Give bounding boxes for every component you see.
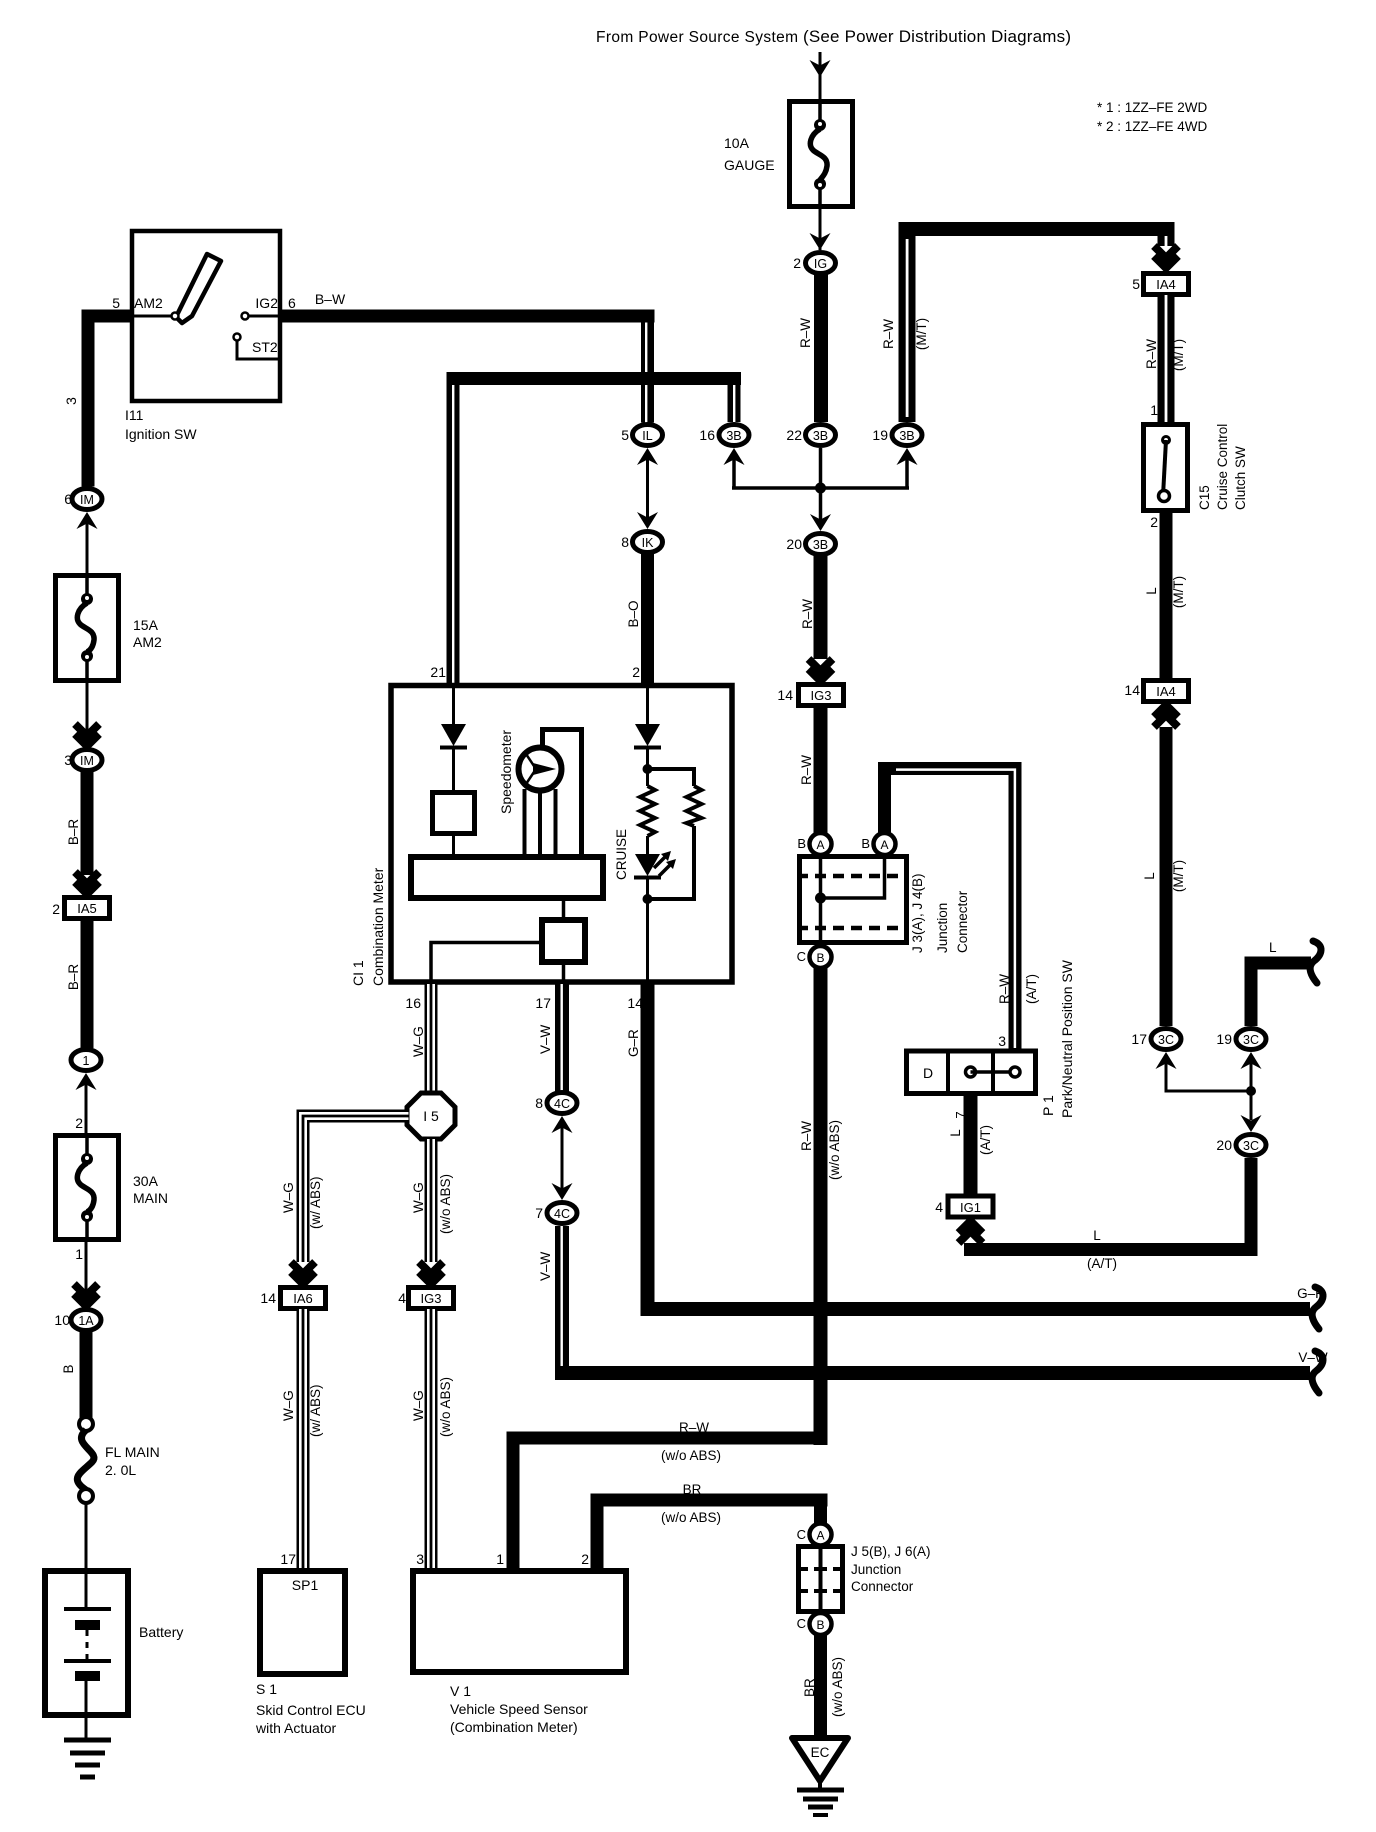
wire R-W from right A up to P1 pin 3: [878, 762, 891, 833]
svg-text:C: C: [797, 1527, 806, 1542]
connector 6 IM: [64, 489, 102, 510]
svg-text:W–G: W–G: [411, 1026, 426, 1057]
svg-text:1: 1: [83, 1054, 90, 1068]
speedometer loop: [543, 730, 582, 855]
svg-text:J 5(B), J 6(A): J 5(B), J 6(A): [851, 1544, 931, 1559]
connector 8 IK: [621, 532, 662, 553]
svg-text:B–O: B–O: [626, 600, 641, 627]
svg-text:22: 22: [786, 427, 802, 443]
svg-text:16: 16: [405, 995, 421, 1011]
svg-text:30A: 30A: [133, 1173, 159, 1189]
svg-text:EC: EC: [811, 1745, 830, 1760]
fusible link FL MAIN 2.0L: [77, 1417, 159, 1503]
terminal ST2: [234, 334, 241, 341]
svg-text:with Actuator: with Actuator: [255, 1720, 336, 1736]
svg-text:R–W: R–W: [679, 1420, 709, 1435]
break symbol (V-W wire): [1312, 1351, 1323, 1393]
svg-text:15A: 15A: [133, 617, 159, 633]
wire BR (w/o ABS) from V1 pin 2 to junction connector: [591, 1494, 828, 1507]
svg-text:IA6: IA6: [293, 1291, 313, 1306]
svg-text:3C: 3C: [1243, 1139, 1259, 1153]
svg-text:(See Power Distribution Diagra: (See Power Distribution Diagrams): [803, 27, 1071, 46]
svg-text:2: 2: [632, 664, 640, 680]
connector 22 3B: [786, 425, 835, 446]
svg-text:SP1: SP1: [292, 1577, 319, 1593]
svg-text:W–G: W–G: [411, 1390, 426, 1421]
wire W-G (w/ ABS) from I5 to 14 IA6: [297, 1110, 409, 1263]
svg-text:4C: 4C: [554, 1097, 570, 1111]
wire cruise to meter pin 14: [646, 899, 649, 983]
svg-text:L: L: [1142, 872, 1157, 880]
sensor V1 Vehicle Speed Sensor: [413, 1551, 626, 1735]
svg-text:AM2: AM2: [133, 634, 162, 650]
svg-text:W–G: W–G: [281, 1390, 296, 1421]
svg-text:4: 4: [398, 1290, 406, 1306]
svg-text:R–W: R–W: [1144, 339, 1159, 369]
wire L (M/T) from 14 IA4 down to 17 3C: [1154, 704, 1178, 727]
svg-text:* 2 : 1ZZ–FE 4WD: * 2 : 1ZZ–FE 4WD: [1097, 119, 1208, 134]
svg-text:5: 5: [1132, 276, 1140, 292]
meter CI 1 Combination Meter box: [350, 686, 732, 987]
wire fuse to IG connector: [819, 209, 822, 250]
svg-text:20: 20: [1216, 1137, 1232, 1153]
connector 2 IG: [793, 253, 835, 274]
connector 20 3B: [786, 534, 835, 555]
svg-text:5: 5: [621, 427, 629, 443]
connector 5 IL: [621, 425, 662, 446]
key symbol: [176, 254, 221, 323]
wire B-R from 3 IM to 2 IA5: [81, 772, 94, 875]
wire W-G (w/ ABS) from IA6 to SP1: [297, 1309, 310, 1568]
switch P1 Park/Neutral Position SW: [907, 959, 1076, 1118]
svg-text:Connector: Connector: [851, 1579, 914, 1594]
connector 20 3C: [1216, 1135, 1266, 1156]
noise filter I5: [407, 1093, 455, 1139]
svg-text:B–R: B–R: [66, 964, 81, 991]
svg-text:IA5: IA5: [77, 901, 97, 916]
svg-text:(M/T): (M/T): [1171, 339, 1186, 371]
svg-text:1: 1: [75, 1246, 83, 1262]
svg-text:IG2: IG2: [255, 295, 278, 311]
wire R-W (w/o ABS) from C B down to V1 pin 1: [814, 968, 828, 1445]
svg-text:I11: I11: [125, 407, 144, 423]
fuse 30A MAIN: [56, 1133, 169, 1242]
meter internal: wire pin 21 branch: [452, 688, 455, 724]
break symbol (G-R wire): [1312, 1287, 1323, 1329]
wire BR (w/o ABS) to EC ground: [814, 1635, 827, 1738]
svg-text:B–R: B–R: [66, 819, 81, 846]
svg-text:16: 16: [699, 427, 715, 443]
svg-text:Skid Control ECU: Skid Control ECU: [256, 1702, 366, 1718]
svg-text:3C: 3C: [1243, 1033, 1259, 1047]
ground EC: [792, 1738, 848, 1815]
svg-text:R–W: R–W: [798, 318, 813, 348]
svg-text:21: 21: [430, 664, 446, 680]
connector 5 IA4: [1132, 274, 1188, 295]
svg-text:3B: 3B: [813, 429, 828, 443]
connector 16 3B: [699, 425, 749, 446]
wire from AM2 to 6 IM: [82, 310, 133, 323]
break symbol (L wire): [1310, 941, 1321, 983]
svg-text:Connector: Connector: [955, 890, 970, 953]
svg-text:2. 0L: 2. 0L: [105, 1462, 136, 1478]
svg-text:IA4: IA4: [1156, 277, 1176, 292]
svg-text:V–W: V–W: [538, 1024, 553, 1054]
svg-text:14: 14: [260, 1290, 276, 1306]
svg-text:(w/ ABS): (w/ ABS): [308, 1176, 323, 1229]
svg-text:L: L: [948, 1129, 963, 1137]
svg-text:17: 17: [535, 995, 551, 1011]
svg-text:FL MAIN: FL MAIN: [105, 1444, 160, 1460]
wire R-W from IG to 22 3B: [814, 273, 828, 422]
junction connector J5(B) J6(A): [796, 1524, 931, 1636]
svg-text:8: 8: [621, 534, 629, 550]
svg-text:(A/T): (A/T): [978, 1125, 993, 1155]
svg-text:2: 2: [52, 901, 60, 917]
svg-text:BR: BR: [683, 1482, 702, 1497]
svg-text:(A/T): (A/T): [1087, 1256, 1117, 1271]
svg-text:2: 2: [581, 1551, 589, 1567]
wire link 16 3B / 22 3B / 19 3B to 20 3B: [724, 448, 745, 465]
svg-text:V–W: V–W: [538, 1251, 553, 1281]
wire V-W from 7 4C to break (right): [555, 1226, 1310, 1380]
fuse 10A GAUGE: [724, 99, 853, 209]
node (cruise top): [643, 764, 653, 774]
svg-text:L: L: [1093, 1228, 1101, 1243]
svg-text:4: 4: [935, 1199, 943, 1215]
svg-text:R–W: R–W: [799, 755, 814, 785]
switch C15 Cruise Control Clutch SW: [1144, 424, 1249, 511]
wire link IL to IK: [637, 448, 658, 465]
connector 19 3C: [1216, 1029, 1266, 1050]
svg-text:CI 1: CI 1: [350, 960, 366, 986]
wire L from 19 3C up to break: [1245, 957, 1258, 1027]
svg-text:3: 3: [63, 397, 79, 405]
svg-text:Speedometer: Speedometer: [498, 730, 514, 814]
wire FL MAIN to battery: [85, 1503, 88, 1568]
svg-text:IL: IL: [642, 429, 652, 443]
wire link 16 3B to meter pin 21: [447, 372, 742, 385]
svg-text:2: 2: [75, 1115, 83, 1131]
svg-text:3B: 3B: [899, 429, 914, 443]
svg-text:P 1: P 1: [1040, 1095, 1056, 1116]
svg-text:(w/o ABS): (w/o ABS): [661, 1510, 721, 1525]
svg-text:CRUISE: CRUISE: [614, 829, 629, 880]
wire V-W from meter pin 17 to 8 4C: [555, 984, 569, 1092]
wire L (A/T) from P1 pin 7 to 4 IG1: [964, 1094, 978, 1194]
svg-text:1: 1: [496, 1551, 504, 1567]
svg-text:8: 8: [535, 1095, 543, 1111]
ECU S1 Skid Control ECU with Actuator: [255, 1551, 366, 1736]
svg-text:Cruise Control: Cruise Control: [1215, 424, 1230, 510]
junction connector J3(A) J4(B): [797, 833, 970, 968]
svg-text:Ignition SW: Ignition SW: [125, 426, 197, 442]
svg-text:17: 17: [1131, 1031, 1147, 1047]
svg-text:R–W: R–W: [800, 599, 815, 629]
svg-text:G–R: G–R: [626, 1029, 641, 1057]
svg-text:20: 20: [786, 536, 802, 552]
svg-text:(w/o ABS): (w/o ABS): [830, 1657, 845, 1717]
svg-text:7: 7: [535, 1205, 543, 1221]
svg-text:(M/T): (M/T): [1171, 860, 1186, 892]
connector 2 IA5: [52, 898, 109, 919]
svg-text:14: 14: [777, 687, 793, 703]
svg-text:(M/T): (M/T): [1171, 576, 1186, 608]
svg-text:IM: IM: [80, 493, 94, 507]
wire B-O from IK to meter pin 2: [641, 554, 654, 683]
svg-text:A: A: [880, 838, 888, 852]
resistor (left, cruise): [640, 786, 655, 836]
wire L (M/T) from C15 to 14 IA4: [1160, 513, 1173, 678]
svg-text:R–W: R–W: [997, 974, 1012, 1004]
connector 7 4C: [535, 1203, 577, 1224]
wire G-R from meter pin 14 to break (right): [641, 984, 1311, 1316]
node (cruise bottom): [643, 894, 653, 904]
svg-text:3B: 3B: [726, 429, 741, 443]
svg-text:Junction: Junction: [935, 903, 950, 953]
wire B-W from IG2 to 5 IL: [282, 310, 655, 323]
svg-text:R–W: R–W: [881, 319, 896, 349]
meter internal long box: [411, 857, 603, 898]
svg-text:IG3: IG3: [811, 688, 832, 703]
svg-text:IG: IG: [814, 257, 827, 271]
svg-text:MAIN: MAIN: [133, 1190, 168, 1206]
LED cruise indicator: [635, 854, 660, 876]
svg-text:D: D: [923, 1065, 933, 1081]
svg-text:* 1 : 1ZZ–FE 2WD: * 1 : 1ZZ–FE 2WD: [1097, 100, 1208, 115]
diode (cruise): [635, 724, 660, 746]
svg-text:B: B: [816, 1618, 824, 1632]
svg-text:2: 2: [793, 255, 801, 271]
svg-text:J 3(A), J 4(B): J 3(A), J 4(B): [910, 873, 925, 953]
fuse 15A AM2: [56, 573, 163, 683]
connector 10 1A: [54, 1310, 101, 1331]
svg-text:Battery: Battery: [139, 1624, 183, 1640]
svg-text:1: 1: [1150, 402, 1158, 418]
svg-text:17: 17: [280, 1551, 296, 1567]
svg-text:7: 7: [953, 1111, 968, 1118]
svg-text:GAUGE: GAUGE: [724, 157, 775, 173]
svg-text:C: C: [797, 949, 806, 964]
switch I11 Ignition SW: [112, 231, 296, 442]
svg-text:IK: IK: [642, 536, 654, 550]
svg-text:L: L: [1144, 587, 1159, 595]
wire W-G from meter pin 16 to I5: [425, 984, 438, 1092]
connector 4 IG3: [398, 1288, 453, 1309]
wire B from 1A to fusible link: [80, 1332, 93, 1420]
svg-text:Park/Neutral Position SW: Park/Neutral Position SW: [1059, 959, 1075, 1118]
connector 4 IG1: [935, 1196, 993, 1217]
svg-text:C15: C15: [1197, 485, 1212, 510]
svg-text:5: 5: [112, 295, 120, 311]
svg-text:B: B: [861, 836, 870, 851]
connector 19 3B: [872, 425, 922, 446]
svg-text:W–G: W–G: [281, 1182, 296, 1213]
svg-text:(Combination Meter): (Combination Meter): [450, 1719, 578, 1735]
svg-text:C: C: [797, 1616, 806, 1631]
svg-text:R–W: R–W: [799, 1121, 814, 1151]
svg-text:B–W: B–W: [315, 291, 346, 307]
resistor (right, cruise) parallel branch: [648, 769, 695, 786]
connector 8 4C: [535, 1093, 577, 1114]
svg-text:L: L: [1269, 940, 1277, 955]
svg-text:ST2: ST2: [252, 339, 278, 355]
connector 14 IA4: [1124, 681, 1188, 702]
wire link 8 4C to 7 4C: [552, 1116, 573, 1133]
svg-text:2: 2: [1150, 514, 1158, 530]
svg-text:Clutch SW: Clutch SW: [1233, 446, 1248, 510]
svg-text:IG1: IG1: [960, 1200, 981, 1215]
svg-text:(w/o ABS): (w/o ABS): [827, 1120, 842, 1180]
svg-text:3C: 3C: [1158, 1033, 1174, 1047]
svg-text:Combination Meter: Combination Meter: [370, 867, 386, 986]
svg-text:10: 10: [54, 1312, 70, 1328]
svg-text:(w/o ABS): (w/o ABS): [661, 1448, 721, 1463]
speedometer wires to resistor pack: [523, 789, 527, 854]
svg-text:10A: 10A: [724, 135, 750, 151]
wire R-W from 20 3B to 14 IG3: [814, 556, 828, 659]
svg-text:1A: 1A: [78, 1314, 94, 1328]
svg-text:IG3: IG3: [421, 1291, 442, 1306]
meter cruise branch: wire pin 2 down: [646, 688, 649, 724]
connector 14 IA6: [260, 1288, 325, 1309]
node 1 (connector oval): [71, 1050, 101, 1071]
svg-text:19: 19: [872, 427, 888, 443]
svg-text:Vehicle Speed Sensor: Vehicle Speed Sensor: [450, 1701, 588, 1717]
svg-text:3B: 3B: [813, 538, 828, 552]
connector 17 3C: [1131, 1029, 1181, 1050]
ground (battery): [85, 1715, 88, 1740]
svg-text:IA4: IA4: [1156, 684, 1176, 699]
wire 17 3C / 19 3C to 20 3C (thin link): [1156, 1052, 1177, 1069]
wire W-G (w/o ABS) from IG3 to V1 pin 3: [425, 1309, 438, 1568]
svg-text:V 1: V 1: [450, 1683, 471, 1699]
connector 3 IM: [64, 750, 102, 771]
svg-text:A: A: [816, 1529, 824, 1543]
wire B-R from IA5 to node 1: [81, 920, 94, 1048]
svg-text:B: B: [797, 836, 806, 851]
connector 14 IG3: [777, 685, 843, 706]
svg-text:A: A: [816, 838, 824, 852]
meter internal small box (left): [433, 793, 475, 834]
svg-text:14: 14: [1124, 682, 1140, 698]
svg-text:(w/ ABS): (w/ ABS): [308, 1384, 323, 1437]
wire R-W from 14 IG3 to junction connector: [814, 707, 828, 833]
speedometer: [498, 730, 562, 814]
svg-text:I 5: I 5: [423, 1108, 439, 1124]
wire L (A/T) from 20 3C to IG1: [1245, 1158, 1258, 1256]
wire node 1 to fuse 30A MAIN: [85, 1081, 88, 1133]
svg-text:B: B: [816, 951, 824, 965]
svg-text:(A/T): (A/T): [1024, 974, 1039, 1004]
svg-text:3: 3: [416, 1551, 424, 1567]
diode (left): [441, 724, 466, 746]
wire IM to fuse 15A AM2: [86, 520, 89, 573]
svg-text:(M/T): (M/T): [914, 318, 929, 350]
svg-text:(w/o ABS): (w/o ABS): [438, 1377, 453, 1437]
svg-text:AM2: AM2: [134, 295, 163, 311]
wire from power source into fuse: [819, 52, 822, 99]
svg-text:19: 19: [1216, 1031, 1232, 1047]
wire W-G (w/o ABS) from I5 to 4 IG3: [425, 1139, 438, 1262]
svg-text:S 1: S 1: [256, 1681, 277, 1697]
svg-text:Junction: Junction: [851, 1562, 901, 1577]
svg-text:B: B: [61, 1364, 76, 1373]
svg-text:3: 3: [998, 1033, 1006, 1049]
svg-text:BR: BR: [802, 1678, 817, 1697]
svg-text:6: 6: [288, 295, 296, 311]
battery: [45, 1571, 183, 1715]
svg-text:From Power Source System: From Power Source System: [596, 29, 798, 46]
wire R-W (M/T) from 5 IA4 to C15: [1158, 295, 1175, 422]
svg-text:IM: IM: [80, 754, 94, 768]
wire link 19 3B to 5 IA4 (top): [899, 222, 1175, 236]
meter internal bottom small box: [562, 898, 566, 917]
svg-text:W–G: W–G: [411, 1182, 426, 1213]
svg-text:(w/o ABS): (w/o ABS): [438, 1174, 453, 1234]
wire fuse to 3 IM: [86, 683, 89, 740]
svg-text:4C: 4C: [554, 1207, 570, 1221]
wire L (A/T) from IG1 down to 20 3C run: [964, 1243, 977, 1256]
